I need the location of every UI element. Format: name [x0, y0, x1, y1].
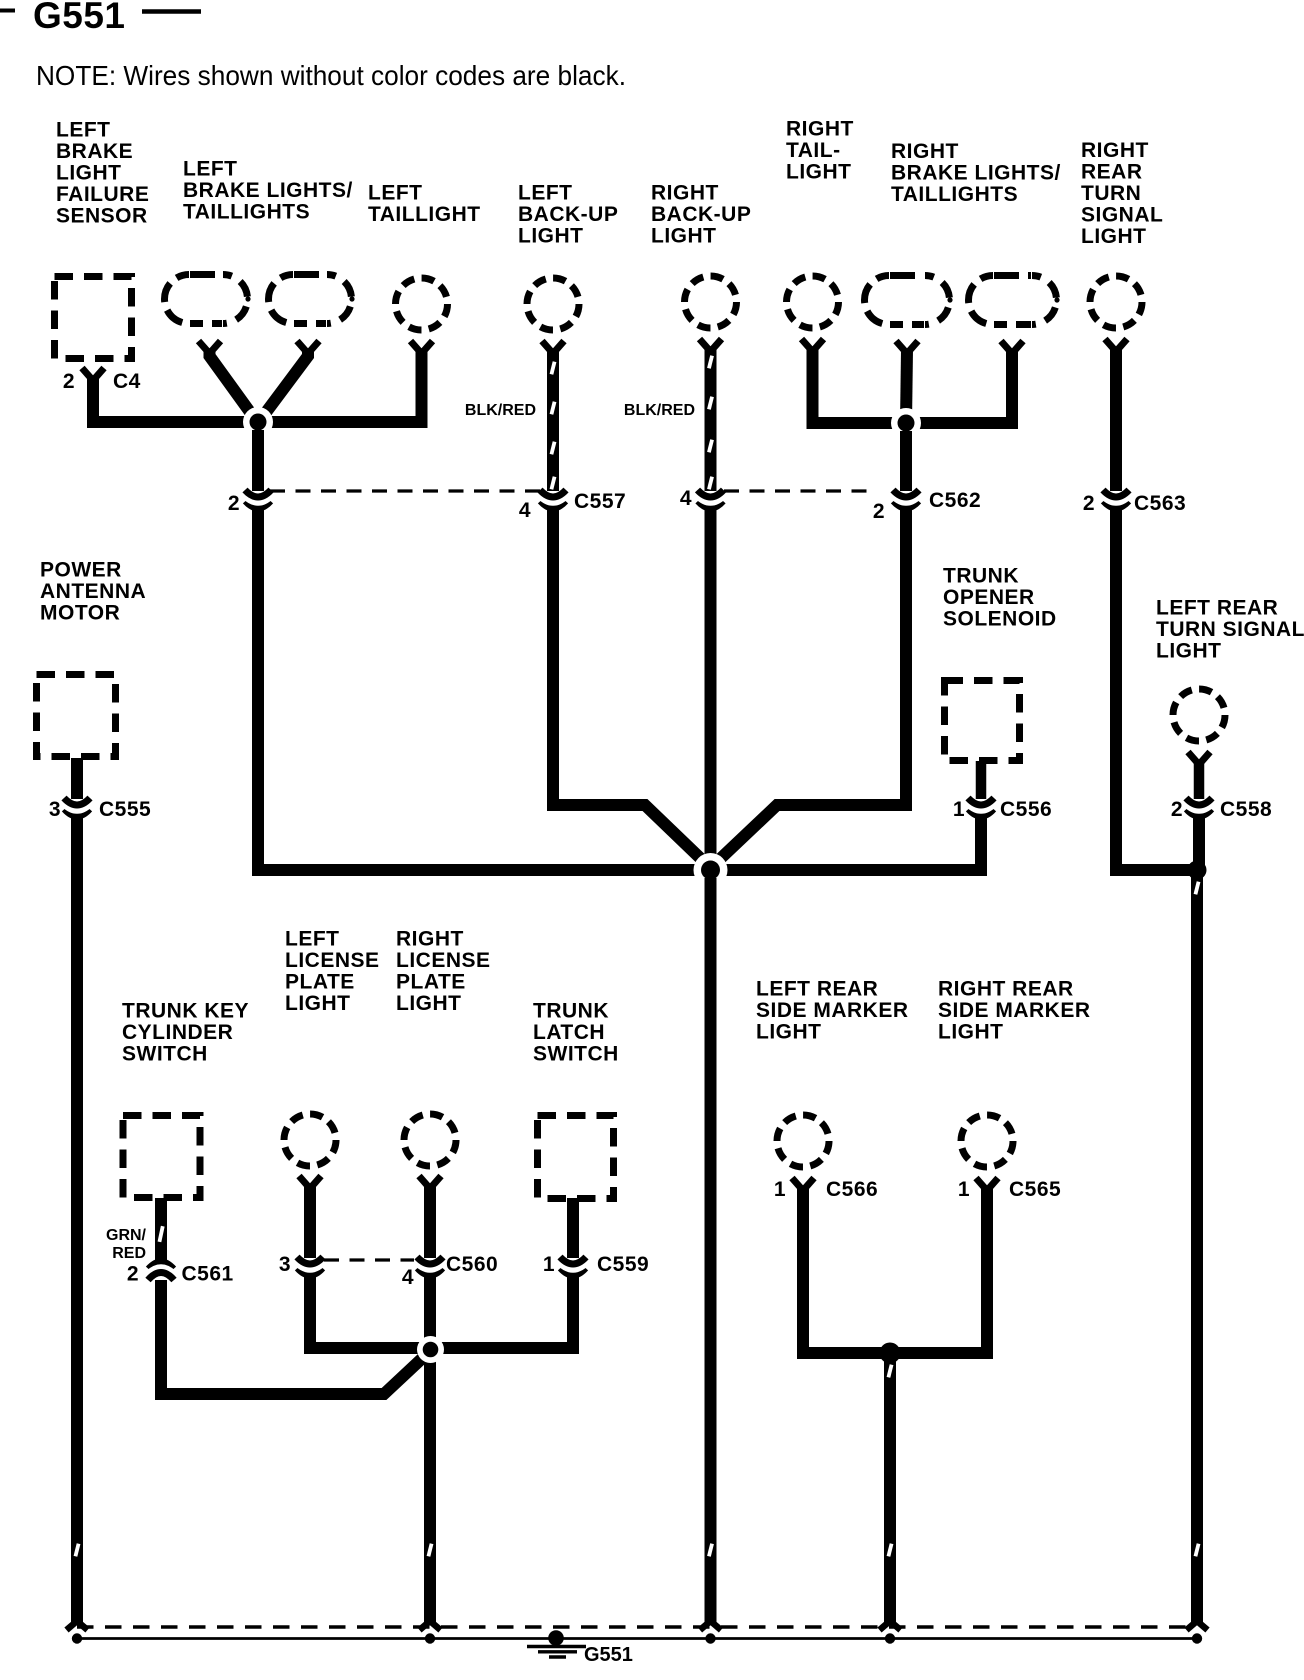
svg-text:2: 2: [1083, 492, 1095, 515]
junction J3: [891, 408, 921, 438]
label left brake lights/taillights: [183, 158, 353, 224]
left taillight bulb: [396, 278, 448, 330]
connector C557 right half: [697, 490, 725, 508]
svg-text:TRUNK: TRUNK: [533, 1000, 609, 1023]
wire right brake bulb2 to J3: [906, 350, 1012, 423]
label 4 C560: [402, 1253, 498, 1289]
svg-text:C559: C559: [597, 1253, 649, 1276]
svg-text:TRUNK KEY: TRUNK KEY: [122, 1000, 249, 1023]
ground G551 symbol: [527, 1630, 586, 1657]
svg-text:3: 3: [49, 798, 61, 821]
stripe marks on bottom verticals: [74, 1543, 1201, 1557]
connector C558: [1185, 798, 1213, 816]
connector C559: [559, 1257, 587, 1275]
svg-text:C560: C560: [446, 1253, 498, 1276]
wire left brake bulb2 to J1: [261, 350, 308, 419]
trunk key cylinder switch: [123, 1116, 200, 1198]
stripe marks BLK/RED right: [707, 355, 714, 490]
svg-text:LEFT REAR: LEFT REAR: [756, 978, 878, 1001]
pin right rear turn: [1105, 339, 1127, 352]
label trunk key cylinder switch: [122, 1000, 249, 1066]
pin central wire bottom: [700, 1621, 721, 1630]
svg-text:G551: G551: [33, 0, 126, 36]
central junction J2: [694, 853, 728, 887]
svg-text:LIGHT: LIGHT: [756, 1021, 822, 1044]
label BLK/RED left: [465, 402, 536, 419]
svg-text:BACK-UP: BACK-UP: [651, 203, 751, 226]
svg-text:1: 1: [774, 1178, 786, 1201]
pin turn signal wire bottom: [1187, 1621, 1208, 1630]
junction J6: [417, 1336, 444, 1363]
wire right rear turn to C563: [1110, 348, 1122, 491]
junction J5: [1188, 861, 1207, 880]
left brake lights/taillights bulb 1: [164, 275, 250, 324]
svg-text:LIGHT: LIGHT: [651, 225, 717, 248]
connector C556: [967, 798, 995, 816]
svg-text:PLATE: PLATE: [396, 971, 466, 994]
svg-text:RIGHT: RIGHT: [891, 140, 959, 163]
svg-text:2: 2: [63, 370, 75, 393]
pin left taillight: [411, 341, 433, 354]
pin marker wire bottom: [880, 1621, 901, 1630]
wire C555 down to bottom bus: [71, 814, 83, 1624]
connector C4 pin: [82, 368, 104, 381]
svg-text:RIGHT: RIGHT: [1081, 139, 1149, 162]
connector C561: [147, 1262, 175, 1280]
wire central junction down: [705, 878, 717, 1624]
wire C558 down to J5: [1193, 814, 1205, 870]
wire J5 to bottom: [1191, 870, 1203, 1624]
label left rear side marker light: [756, 978, 909, 1044]
svg-text:2: 2: [228, 492, 240, 515]
svg-text:SENSOR: SENSOR: [56, 205, 148, 228]
label 3 C560: [279, 1253, 291, 1276]
svg-text:RIGHT: RIGHT: [396, 928, 464, 951]
right rear side marker light bulb: [961, 1115, 1013, 1167]
wire right brake bulb1 to J3: [906, 350, 907, 423]
pin left back-up: [542, 341, 564, 354]
connector C555: [63, 798, 91, 816]
wire J7 to bottom: [884, 1353, 896, 1624]
right back-up light bulb: [685, 276, 737, 328]
svg-text:MOTOR: MOTOR: [40, 602, 120, 625]
svg-text:C556: C556: [1000, 798, 1052, 821]
wire left marker to J7: [803, 1187, 890, 1353]
wire C559 to J6: [430, 1273, 573, 1348]
svg-text:NOTE: Wires shown without colo: NOTE: Wires shown without color codes ar…: [36, 60, 626, 91]
label pin 2 C4: [63, 370, 141, 393]
stripe mark GRN/RED: [158, 1226, 165, 1242]
right brake lights/taillights bulb 2: [969, 276, 1060, 325]
pin antenna wire bottom: [67, 1621, 88, 1630]
pin left license: [299, 1176, 321, 1189]
pin right brake bulb1: [896, 341, 918, 354]
connector C565 pin: [976, 1178, 998, 1191]
svg-text:GRN/: GRN/: [106, 1227, 147, 1244]
svg-text:SWITCH: SWITCH: [122, 1043, 208, 1066]
left rear side marker light bulb: [777, 1115, 829, 1167]
label 1 C565: [958, 1178, 1061, 1201]
pin left rear turn: [1188, 752, 1210, 765]
svg-text:BRAKE LIGHTS/: BRAKE LIGHTS/: [183, 179, 353, 202]
right license plate light bulb: [404, 1114, 456, 1166]
wire below inline connector to bus: [252, 506, 264, 876]
svg-text:LEFT: LEFT: [183, 158, 238, 181]
stripe marks BLK/RED left: [550, 361, 557, 490]
label GRN/RED: [106, 1227, 147, 1262]
label left license plate light: [285, 928, 380, 1016]
wire solenoid to C556: [976, 761, 987, 799]
svg-text:SOLENOID: SOLENOID: [943, 608, 1057, 631]
label left rear turn signal light: [1156, 597, 1304, 663]
svg-text:2: 2: [873, 500, 885, 523]
svg-text:SIDE MARKER: SIDE MARKER: [938, 999, 1091, 1022]
right rear turn signal light bulb: [1090, 276, 1142, 328]
svg-text:TAIL-: TAIL-: [786, 139, 841, 162]
svg-text:C562: C562: [929, 489, 981, 512]
label right rear turn signal light: [1081, 139, 1163, 248]
node dot marker: [885, 1633, 895, 1643]
svg-text:LEFT: LEFT: [518, 182, 573, 205]
svg-text:BRAKE: BRAKE: [56, 140, 133, 163]
svg-text:LEFT REAR: LEFT REAR: [1156, 597, 1278, 620]
svg-text:LIGHT: LIGHT: [1156, 640, 1222, 663]
svg-text:SIGNAL: SIGNAL: [1081, 204, 1163, 227]
svg-text:C557: C557: [574, 490, 626, 513]
svg-text:LIGHT: LIGHT: [285, 992, 351, 1015]
pin right brake bulb2: [1001, 341, 1023, 354]
label 1 C566: [774, 1178, 878, 1201]
svg-text:RIGHT: RIGHT: [651, 182, 719, 205]
wire left brake bulb1 to J1: [210, 350, 256, 419]
pin left brake bulb 2: [297, 341, 319, 354]
wire C556 down to bus: [711, 814, 982, 870]
svg-text:LIGHT: LIGHT: [56, 162, 122, 185]
svg-text:LIGHT: LIGHT: [786, 161, 852, 184]
svg-text:C566: C566: [826, 1178, 878, 1201]
svg-text:C561: C561: [182, 1263, 234, 1286]
svg-text:BRAKE LIGHTS/: BRAKE LIGHTS/: [891, 162, 1061, 185]
wire motor to C555: [71, 758, 83, 799]
svg-text:RIGHT REAR: RIGHT REAR: [938, 978, 1074, 1001]
svg-text:2: 2: [1171, 798, 1183, 821]
svg-text:ANTENNA: ANTENNA: [40, 580, 146, 603]
svg-text:LIGHT: LIGHT: [396, 992, 462, 1015]
label 1 C556: [953, 798, 1052, 821]
wire right back-up striped: [705, 348, 717, 491]
svg-text:REAR: REAR: [1081, 161, 1143, 184]
svg-text:CYLINDER: CYLINDER: [122, 1021, 233, 1044]
svg-text:4: 4: [519, 499, 531, 522]
wire right taillight to J3: [813, 348, 907, 423]
node dot antenna: [72, 1633, 82, 1643]
label power antenna motor: [40, 559, 146, 625]
junction J7: [880, 1343, 901, 1364]
svg-text:TURN: TURN: [1081, 182, 1141, 205]
power antenna motor: [37, 675, 116, 757]
svg-text:POWER: POWER: [40, 559, 122, 582]
svg-text:BLK/RED: BLK/RED: [465, 402, 536, 419]
left brake lights/taillights bulb 2: [269, 275, 355, 324]
connector C560 left half: [296, 1257, 324, 1275]
left brake light failure sensor: [55, 277, 132, 359]
pin right license: [419, 1176, 441, 1189]
wire latch to C559: [567, 1198, 579, 1258]
wire right license through J6 to bottom: [424, 1273, 436, 1624]
svg-text:FAILURE: FAILURE: [56, 183, 149, 206]
svg-text:LEFT: LEFT: [56, 119, 111, 142]
junction J1: [243, 407, 273, 437]
label 2 at inline connector: [228, 492, 240, 515]
connector C566 pin: [792, 1178, 814, 1191]
label left back-up light: [518, 182, 618, 248]
label right back-up light: [651, 182, 751, 248]
wire right license to C560: [424, 1185, 436, 1258]
svg-text:LEFT: LEFT: [368, 182, 423, 205]
dashed ground bus line: [77, 1625, 1197, 1628]
svg-text:LATCH: LATCH: [533, 1021, 605, 1044]
stripe below J7: [887, 1364, 894, 1378]
label 2 C561: [127, 1263, 234, 1286]
right brake lights/taillights bulb 1: [865, 276, 953, 325]
wire sensor to junction J1: [93, 377, 258, 422]
svg-text:1: 1: [958, 1178, 970, 1201]
wire C557 to central junction: [553, 506, 711, 868]
svg-text:4: 4: [680, 487, 692, 510]
node dot license: [425, 1633, 435, 1643]
svg-text:TRUNK: TRUNK: [943, 565, 1019, 588]
svg-text:C4: C4: [113, 370, 141, 393]
title dash right: [142, 9, 201, 14]
svg-text:TAILLIGHT: TAILLIGHT: [368, 203, 481, 226]
title dash left: [0, 9, 15, 13]
trunk opener solenoid: [945, 681, 1020, 761]
connector pin2 inline at J1 wire: [244, 490, 272, 508]
connector C560 right half: [416, 1257, 444, 1275]
svg-text:TAILLIGHTS: TAILLIGHTS: [183, 201, 310, 224]
note text: [36, 60, 626, 91]
left rear turn signal light bulb: [1173, 689, 1225, 741]
dashed link line C557 row: [270, 489, 871, 492]
bus wire J1 to C556 corner: [258, 864, 981, 876]
connector C563: [1102, 490, 1130, 508]
svg-text:C563: C563: [1134, 492, 1186, 515]
svg-text:LIGHT: LIGHT: [518, 225, 584, 248]
trunk latch switch: [538, 1116, 614, 1199]
label 2 C558: [1171, 798, 1272, 821]
pin right taillight: [802, 339, 824, 352]
svg-text:LICENSE: LICENSE: [396, 949, 491, 972]
label 3 C555: [49, 798, 151, 821]
label 2 C563: [1083, 492, 1186, 515]
svg-text:TAILLIGHTS: TAILLIGHTS: [891, 183, 1018, 206]
label G551 ground: [584, 1644, 633, 1666]
wire J1 down to connector: [252, 430, 264, 491]
stripe below J5: [1194, 881, 1201, 895]
right tail-light bulb: [787, 276, 839, 328]
svg-text:LEFT: LEFT: [285, 928, 340, 951]
svg-text:1: 1: [543, 1253, 555, 1276]
label trunk latch switch: [533, 1000, 619, 1066]
label 4 C557: [519, 490, 626, 522]
node dot turn: [1192, 1633, 1202, 1643]
wire switch to C561 striped GRN/RED: [155, 1198, 167, 1263]
wire left rear turn to C558: [1194, 761, 1205, 799]
left license plate light bulb: [284, 1114, 336, 1166]
label left brake light failure sensor: [56, 119, 149, 228]
label left taillight: [368, 182, 481, 227]
wire C561 to junction J6: [161, 1280, 430, 1394]
ground label G551 title: [33, 0, 126, 36]
svg-text:C565: C565: [1009, 1178, 1061, 1201]
wire right marker to J7: [890, 1187, 987, 1353]
pin license wire bottom: [420, 1621, 441, 1630]
svg-text:C555: C555: [99, 798, 151, 821]
svg-text:LIGHT: LIGHT: [938, 1021, 1004, 1044]
svg-text:LICENSE: LICENSE: [285, 949, 380, 972]
wire C563 down to J5: [1116, 506, 1197, 870]
svg-text:2: 2: [127, 1263, 139, 1286]
wire J3 down to C562: [900, 431, 912, 491]
label right tail-light: [786, 118, 854, 184]
wire left back-up striped: [547, 350, 559, 491]
solid ground line: [72, 1637, 1199, 1640]
svg-text:RED: RED: [112, 1245, 146, 1262]
label right brake lights/taillights: [891, 140, 1061, 206]
wire left license to J6: [310, 1273, 430, 1348]
label 2 C562: [873, 489, 981, 523]
svg-text:4: 4: [402, 1266, 414, 1289]
svg-text:SIDE MARKER: SIDE MARKER: [756, 999, 909, 1022]
svg-text:OPENER: OPENER: [943, 586, 1035, 609]
wire C562 to central junction: [711, 506, 907, 868]
svg-text:SWITCH: SWITCH: [533, 1043, 619, 1066]
pin right back-up: [700, 339, 722, 352]
wire left license to C560: [304, 1185, 316, 1258]
svg-text:LIGHT: LIGHT: [1081, 225, 1147, 248]
label BLK/RED right: [624, 402, 695, 419]
svg-text:PLATE: PLATE: [285, 971, 355, 994]
label right license plate light: [396, 928, 491, 1016]
dashed link line C560: [324, 1258, 414, 1261]
pin left brake bulb 1: [199, 341, 221, 354]
label 1 C559: [543, 1253, 649, 1276]
svg-text:BACK-UP: BACK-UP: [518, 203, 618, 226]
svg-text:G551: G551: [584, 1644, 633, 1666]
svg-text:3: 3: [279, 1253, 291, 1276]
svg-text:BLK/RED: BLK/RED: [624, 402, 695, 419]
svg-text:1: 1: [953, 798, 965, 821]
wire right back-up down to central junction: [705, 506, 717, 870]
wire left taillight to J1: [258, 350, 422, 422]
label 4 right C557: [680, 487, 692, 510]
svg-text:RIGHT: RIGHT: [786, 118, 854, 141]
left back-up light bulb: [527, 278, 579, 330]
label right rear side marker light: [938, 978, 1091, 1044]
label trunk opener solenoid: [943, 565, 1057, 631]
svg-text:C558: C558: [1220, 798, 1272, 821]
connector C557 left half: [539, 490, 567, 508]
node dot central: [705, 1633, 715, 1643]
connector C562: [892, 490, 920, 508]
svg-text:TURN SIGNAL: TURN SIGNAL: [1156, 618, 1304, 641]
